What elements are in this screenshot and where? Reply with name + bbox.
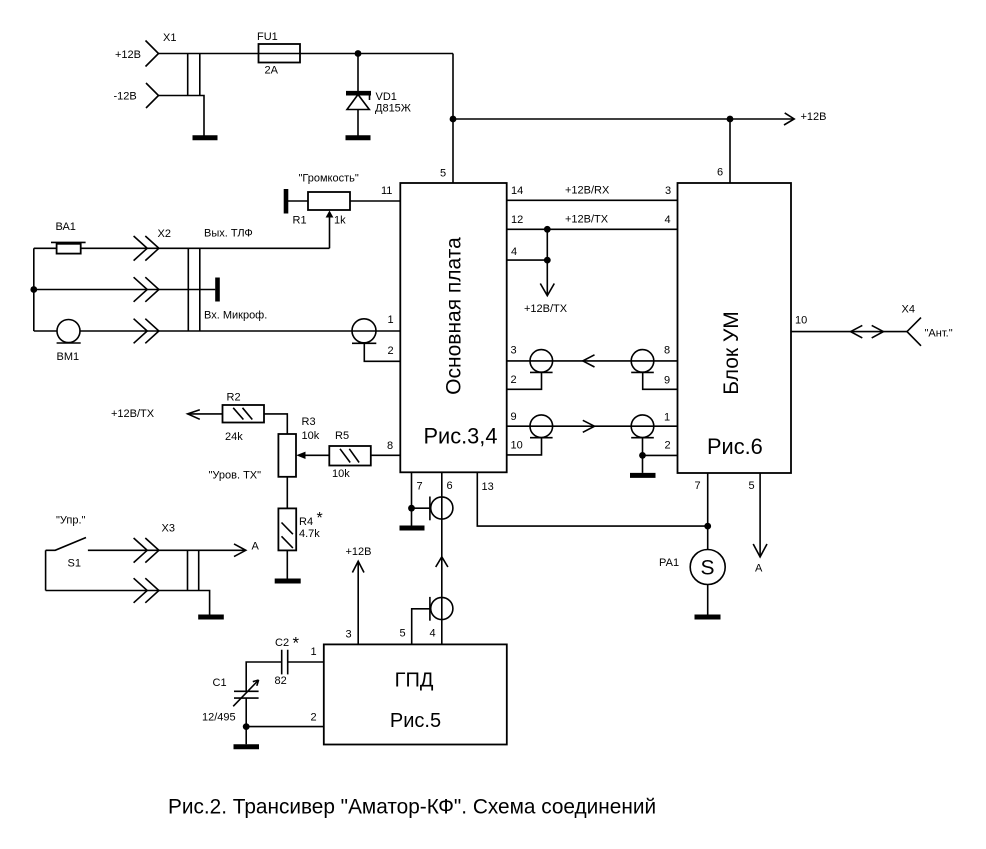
svg-text:2: 2 xyxy=(511,374,517,386)
svg-text:5: 5 xyxy=(749,480,755,492)
wire +12V rail corner down to pin 5 xyxy=(452,54,454,184)
svg-text:7: 7 xyxy=(695,480,701,492)
arrow +12V output xyxy=(784,113,794,125)
microphone BM1 xyxy=(57,320,81,344)
resistor R4 xyxy=(278,508,296,550)
wire pin 13 to UM pin 7 xyxy=(477,472,707,526)
svg-text:Д815Ж: Д815Ж xyxy=(375,103,411,115)
wire mic line to coax xyxy=(34,330,401,332)
svg-text:Рис.2. Трансивер "Аматор-КФ".: Рис.2. Трансивер "Аматор-КФ". Схема соед… xyxy=(168,796,656,819)
coax connector at main pin 9 xyxy=(507,415,553,455)
resistor R2 xyxy=(223,405,265,423)
wire R5 to pin 8 xyxy=(371,454,401,456)
svg-text:VD1: VD1 xyxy=(376,91,397,103)
arrow GPD signal up xyxy=(436,557,448,567)
svg-text:4: 4 xyxy=(665,214,671,226)
svg-text:S1: S1 xyxy=(68,558,81,570)
wire common left bus xyxy=(33,248,35,331)
node junction dot GPD pin 2 xyxy=(243,723,250,730)
wire to ground below xyxy=(642,455,644,473)
wire pin 4 branch xyxy=(507,229,548,295)
svg-text:"Упр.": "Упр." xyxy=(56,515,86,527)
svg-text:+12В: +12В xyxy=(346,546,372,558)
svg-text:+12В/ТХ: +12В/ТХ xyxy=(565,214,609,226)
ground PA1 xyxy=(695,615,721,620)
svg-text:10k: 10k xyxy=(302,430,320,442)
node junction dot UM pin 2 xyxy=(639,452,646,459)
connector X1 xyxy=(146,41,200,109)
svg-text:8: 8 xyxy=(664,345,670,357)
coax connector at main pin 6 xyxy=(430,497,453,521)
svg-text:А: А xyxy=(755,563,763,575)
wire main pin 9 to UM pin 1 xyxy=(507,425,678,427)
svg-text:9: 9 xyxy=(511,411,517,423)
meter PA1 xyxy=(690,550,725,585)
wire to UM pin 6 xyxy=(729,119,731,183)
connector X2 chevrons row1 xyxy=(134,236,159,261)
svg-text:3: 3 xyxy=(346,629,352,641)
node common junction dot xyxy=(30,286,37,293)
svg-text:Рис.5: Рис.5 xyxy=(390,710,441,732)
svg-text:ВМ1: ВМ1 xyxy=(57,351,80,363)
svg-text:X4: X4 xyxy=(902,304,915,316)
ground VD1 xyxy=(346,135,371,140)
connector X2 body lines xyxy=(188,248,200,331)
node junction dot pin 4 xyxy=(544,257,551,264)
terminal mic shield bar xyxy=(215,278,220,302)
svg-text:+12В/ТХ: +12В/ТХ xyxy=(111,408,155,420)
coax connector at main pin 1 xyxy=(352,319,400,362)
svg-text:-12В: -12В xyxy=(114,91,137,103)
wire UM pin 10 to X4 xyxy=(791,331,907,333)
coax connector at UM pin 8 xyxy=(631,350,677,390)
svg-text:12: 12 xyxy=(511,214,523,226)
wire coax shield to GPD pin 5 xyxy=(412,609,430,645)
speaker BA1 xyxy=(51,242,86,253)
svg-text:Вх. Микроф.: Вх. Микроф. xyxy=(204,310,267,322)
wire PA1 to ground xyxy=(707,585,709,615)
wire UM pin 5 arrow down xyxy=(759,473,761,557)
node junction dot pin 12 branch xyxy=(544,226,551,233)
svg-text:+12В/RX: +12В/RX xyxy=(565,185,610,197)
svg-text:4.7k: 4.7k xyxy=(299,528,320,540)
svg-text:1: 1 xyxy=(664,412,670,424)
ground UM pin 2 xyxy=(630,473,656,478)
svg-text:1k: 1k xyxy=(334,215,346,227)
svg-text:Блок УМ: Блок УМ xyxy=(720,311,743,395)
zener diode VD1 xyxy=(346,54,371,136)
svg-text:12/495: 12/495 xyxy=(202,712,236,724)
coax connector at UM pin 1 xyxy=(631,415,654,455)
svg-text:2: 2 xyxy=(665,440,671,452)
svg-text:24k: 24k xyxy=(225,431,243,443)
GPD block Рис.5 xyxy=(324,644,507,744)
wire BA1 to X2 xyxy=(34,247,330,249)
svg-text:R3: R3 xyxy=(302,416,316,428)
svg-text:2: 2 xyxy=(311,712,317,724)
wire main pin 7 to ground xyxy=(411,472,413,525)
svg-text:7: 7 xyxy=(417,481,423,493)
svg-text:10k: 10k xyxy=(332,468,350,480)
resistor R5 xyxy=(329,446,371,466)
svg-text:5: 5 xyxy=(400,628,406,640)
wire to ground C1 xyxy=(245,727,247,745)
ground main pin 7 xyxy=(400,526,425,531)
svg-text:"Громкость": "Громкость" xyxy=(299,173,359,185)
wire bottom X3 row xyxy=(46,591,210,615)
arrow +12V/TX left xyxy=(188,410,200,420)
arrow RX direction left xyxy=(583,355,595,367)
wire S1 left bus xyxy=(45,550,47,590)
svg-text:R5: R5 xyxy=(335,430,349,442)
svg-text:1: 1 xyxy=(311,646,317,658)
wire arrow to R2 xyxy=(188,413,223,415)
svg-text:C1: C1 xyxy=(213,677,227,689)
wire C2 to GPD pin 1 xyxy=(288,661,324,663)
wire UM pin 7 down xyxy=(707,473,709,550)
wire -12V to ground xyxy=(159,96,205,136)
svg-text:3: 3 xyxy=(665,185,671,197)
ground R4 xyxy=(275,579,301,584)
svg-text:2: 2 xyxy=(388,345,394,357)
svg-text:Рис.3,4: Рис.3,4 xyxy=(424,424,498,449)
svg-text:6: 6 xyxy=(717,167,723,179)
connector X2 chevrons row3 xyxy=(134,319,159,344)
svg-text:14: 14 xyxy=(511,185,523,197)
capacitor C2 xyxy=(282,650,288,675)
potentiometer R3 xyxy=(278,434,305,477)
svg-text:+12В/ТХ: +12В/ТХ xyxy=(524,303,568,315)
svg-text:*: * xyxy=(293,634,300,653)
svg-text:5: 5 xyxy=(440,168,446,180)
arrow TX direction right xyxy=(583,420,595,432)
svg-text:R1: R1 xyxy=(293,215,307,227)
svg-text:82: 82 xyxy=(275,675,287,687)
svg-text:4: 4 xyxy=(511,246,517,258)
wire C2 to C1 xyxy=(246,662,282,691)
ground X3 xyxy=(198,615,224,620)
svg-text:Основная плата: Основная плата xyxy=(443,237,466,395)
svg-text:X1: X1 xyxy=(163,32,176,44)
node junction dot UM pin 7 xyxy=(704,523,711,530)
arrow A right xyxy=(234,544,246,557)
svg-text:"Ант.": "Ант." xyxy=(925,328,953,340)
wire +12V rail to the right xyxy=(453,118,794,120)
connector X2 chevrons row2 xyxy=(134,277,159,302)
svg-text:3: 3 xyxy=(511,345,517,357)
fuse FU1 xyxy=(259,44,301,63)
wire GPD pin 2 xyxy=(246,726,324,728)
wire pin 14 to UM pin 3 xyxy=(507,199,678,201)
svg-text:ГПД: ГПД xyxy=(395,670,434,692)
wire +12V arrow GPD pin 3 xyxy=(357,561,359,644)
svg-text:+12В: +12В xyxy=(115,49,141,61)
wire C1 to pin 2 node xyxy=(245,698,247,726)
connector X3 chevrons row2 xyxy=(134,578,159,603)
svg-text:S: S xyxy=(701,557,715,580)
wire pin 6 down with arrow xyxy=(441,472,443,644)
wire coax shield to pin 7 xyxy=(412,507,430,509)
arrow +12V/TX down xyxy=(540,284,554,296)
connector X3 body lines xyxy=(188,550,199,590)
svg-text:6: 6 xyxy=(447,480,453,492)
wire R3 to R4 xyxy=(286,477,288,509)
wire R3 wiper to R5 xyxy=(306,454,330,456)
svg-text:4: 4 xyxy=(430,628,436,640)
svg-text:"Уров. ТХ": "Уров. ТХ" xyxy=(209,470,262,482)
wire R4 to ground xyxy=(286,550,288,578)
svg-text:А: А xyxy=(252,541,260,553)
svg-text:13: 13 xyxy=(482,481,494,493)
ground C1 xyxy=(234,744,260,749)
svg-text:Рис.6: Рис.6 xyxy=(707,434,763,459)
wire pin 12 to UM pin 4 xyxy=(507,228,678,230)
potentiometer R1 xyxy=(286,189,400,248)
node +12V rail junction dot xyxy=(450,116,457,123)
arrow A down xyxy=(753,544,767,557)
variable capacitor C1 xyxy=(233,680,258,706)
svg-text:R4: R4 xyxy=(299,516,313,528)
wire UM pin 2 xyxy=(643,454,678,456)
coax connector at main pin 3 xyxy=(507,350,553,390)
svg-text:9: 9 xyxy=(664,375,670,387)
svg-text:FU1: FU1 xyxy=(257,31,278,43)
connector mate arrows xyxy=(851,325,884,338)
svg-text:ВА1: ВА1 xyxy=(56,221,76,233)
switch S1 xyxy=(46,538,246,551)
connector X4 xyxy=(907,318,921,346)
svg-text:X3: X3 xyxy=(162,523,175,535)
wire +12V from X1 to node A xyxy=(159,53,454,55)
svg-text:C2: C2 xyxy=(275,637,289,649)
svg-text:11: 11 xyxy=(381,185,392,197)
svg-text:10: 10 xyxy=(795,315,807,327)
svg-text:10: 10 xyxy=(511,440,523,452)
PA block Рис.6 xyxy=(678,183,792,473)
main board block Рис.3,4 xyxy=(400,183,506,472)
coax connector at GPD pin 4 xyxy=(430,597,453,621)
svg-text:Вых. ТЛФ: Вых. ТЛФ xyxy=(204,228,253,240)
svg-text:1: 1 xyxy=(388,314,394,326)
svg-text:R2: R2 xyxy=(227,392,241,404)
svg-text:8: 8 xyxy=(387,440,393,452)
node A junction dot xyxy=(355,50,362,57)
svg-text:РА1: РА1 xyxy=(659,557,679,569)
svg-text:*: * xyxy=(317,510,323,527)
wire main pin 3 to UM pin 8 xyxy=(507,360,678,362)
svg-text:+12В: +12В xyxy=(801,111,827,123)
connector X3 chevrons row1 xyxy=(134,538,159,563)
node junction dot pin 7 xyxy=(408,505,415,512)
wire R2 to R3 xyxy=(264,414,287,434)
ground X1 xyxy=(193,135,218,140)
svg-text:2А: 2А xyxy=(265,65,279,77)
svg-text:X2: X2 xyxy=(158,228,171,240)
node junction dot at UM pin 6 branch xyxy=(727,116,734,123)
arrow +12V up xyxy=(352,561,364,572)
wire middle to mic ground terminal xyxy=(34,289,216,291)
